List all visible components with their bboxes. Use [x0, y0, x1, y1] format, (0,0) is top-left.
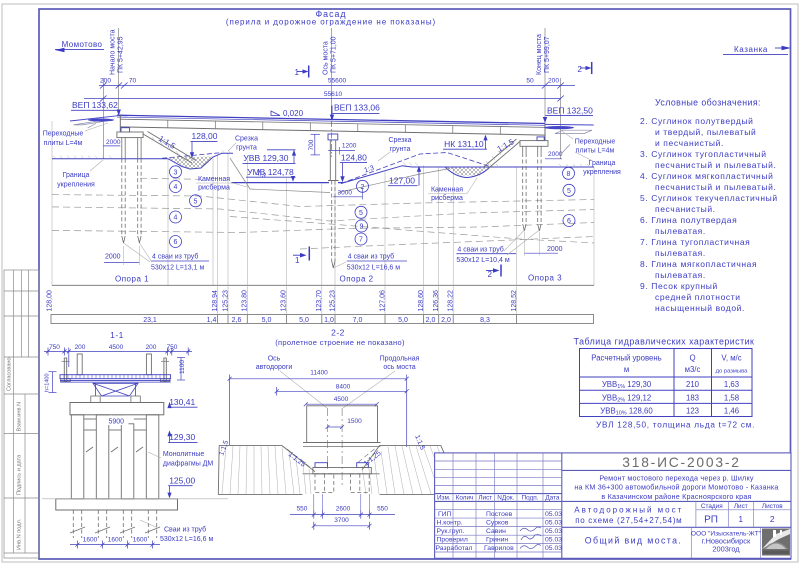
svg-text:Срезка: Срезка — [235, 136, 258, 143]
svg-text:РП: РП — [704, 514, 718, 525]
svg-text:ГИП: ГИП — [438, 511, 452, 518]
svg-text:Ремонт мостового перехода чере: Ремонт мостового перехода через р. Шилку — [599, 473, 754, 482]
svg-text:по схеме (27,54+27,54)м: по схеме (27,54+27,54)м — [575, 516, 682, 525]
svg-text:200: 200 — [548, 78, 559, 85]
svg-text:пылеватая.: пылеватая. — [655, 226, 706, 236]
svg-text:550: 550 — [297, 505, 308, 512]
svg-text:6: 6 — [174, 239, 178, 246]
svg-text:грунта: грунта — [236, 145, 257, 152]
svg-text:Подпись и дата: Подпись и дата — [17, 454, 23, 495]
svg-text:Лист: Лист — [734, 503, 748, 510]
svg-text:2: 2 — [578, 65, 583, 74]
svg-text:средней плотности: средней плотности — [655, 292, 741, 302]
svg-text:124,80: 124,80 — [341, 152, 367, 162]
svg-text:Продольная: Продольная — [380, 356, 420, 363]
svg-text:123,70: 123,70 — [316, 290, 323, 312]
svg-text:1,4: 1,4 — [207, 317, 217, 324]
svg-text:2000: 2000 — [547, 246, 563, 253]
svg-text:1,58: 1,58 — [724, 393, 739, 402]
svg-text:5: 5 — [194, 198, 198, 205]
svg-text:8400: 8400 — [336, 383, 351, 390]
svg-text:NДок.: NДок. — [497, 494, 514, 501]
svg-text:Автодорожный мост: Автодорожный мост — [574, 505, 683, 514]
svg-text:м3/с: м3/с — [685, 365, 701, 374]
svg-text:Листов: Листов — [762, 503, 783, 510]
svg-text:3: 3 — [174, 169, 178, 176]
svg-text:1,63: 1,63 — [724, 380, 739, 389]
svg-text:V, м/с: V, м/с — [721, 354, 741, 363]
svg-text:125,23: 125,23 — [329, 290, 336, 312]
svg-text:2: 2 — [488, 270, 493, 279]
svg-text:4: 4 — [174, 184, 178, 191]
svg-text:и песчанистый.: и песчанистый. — [655, 138, 724, 148]
svg-text:200: 200 — [100, 78, 111, 85]
svg-text:рисберма: рисберма — [431, 194, 463, 202]
svg-text:2000: 2000 — [105, 254, 121, 261]
svg-text:Проверил: Проверил — [437, 537, 468, 544]
svg-text:129,30: 129,30 — [169, 432, 195, 442]
svg-text:1-1: 1-1 — [110, 330, 124, 340]
svg-text:(пролетное строение не показан: (пролетное строение не показано) — [275, 338, 405, 347]
svg-text:Ось моста: Ось моста — [323, 41, 330, 75]
svg-text:Постоев: Постоев — [486, 511, 513, 518]
svg-text:плиты L=4м: плиты L=4м — [44, 140, 83, 147]
svg-text:125,00: 125,00 — [169, 475, 195, 485]
svg-text:Каменная: Каменная — [198, 176, 230, 183]
svg-text:3000: 3000 — [338, 189, 353, 196]
svg-text:УМВ 124,78: УМВ 124,78 — [247, 167, 294, 177]
svg-text:2. Суглинок полутвердый: 2. Суглинок полутвердый — [640, 116, 754, 126]
svg-text:7,0: 7,0 — [353, 317, 363, 324]
svg-text:УВЛ 128,50, толщина льда t=72: УВЛ 128,50, толщина льда t=72 см. — [596, 421, 755, 430]
svg-text:ПК 5+71,00: ПК 5+71,00 — [331, 36, 338, 73]
svg-text:2,0: 2,0 — [441, 317, 451, 324]
svg-text:Опора 3: Опора 3 — [528, 274, 562, 283]
svg-text:4 сваи из труб: 4 сваи из труб — [152, 252, 198, 260]
svg-text:плиты L=4м: плиты L=4м — [576, 148, 615, 155]
svg-text:рисберма: рисберма — [198, 184, 230, 192]
svg-text:1600: 1600 — [133, 537, 148, 544]
svg-text:1,46: 1,46 — [724, 407, 739, 416]
svg-text:6: 6 — [567, 218, 571, 225]
svg-text:200: 200 — [75, 344, 86, 351]
svg-text:128,22: 128,22 — [448, 290, 455, 312]
svg-text:7: 7 — [359, 237, 363, 244]
svg-text:1100: 1100 — [179, 360, 186, 374]
svg-text:4 сваи из труб: 4 сваи из труб — [457, 245, 503, 253]
svg-text:128,94: 128,94 — [212, 290, 219, 312]
svg-text:1600: 1600 — [108, 537, 123, 544]
svg-text:5: 5 — [567, 188, 571, 195]
svg-text:2: 2 — [770, 514, 775, 524]
svg-text:5. Суглинок текучепластичный: 5. Суглинок текучепластичный — [640, 193, 778, 203]
svg-text:2003год: 2003год — [712, 545, 740, 554]
svg-text:123,60: 123,60 — [281, 290, 288, 312]
svg-text:диафрагмы ДМ: диафрагмы ДМ — [163, 460, 214, 467]
svg-text:750: 750 — [49, 344, 60, 351]
svg-text:530х12 L=16,6 м: 530х12 L=16,6 м — [160, 536, 213, 543]
svg-text:на КМ 36+300 автомобильной дор: на КМ 36+300 автомобильной дороги Момото… — [574, 483, 778, 492]
svg-text:2-2: 2-2 — [331, 328, 345, 338]
svg-text:123: 123 — [686, 407, 699, 416]
svg-text:Ось: Ось — [268, 356, 281, 363]
svg-text:ВЕП 133,06: ВЕП 133,06 — [334, 103, 380, 113]
svg-text:125,23: 125,23 — [222, 290, 229, 312]
svg-text:1: 1 — [295, 68, 300, 77]
svg-text:Подп.: Подп. — [522, 494, 539, 501]
svg-text:9. Песок крупный: 9. Песок крупный — [640, 281, 718, 291]
svg-text:Переходные: Переходные — [43, 131, 84, 138]
svg-text:700: 700 — [308, 139, 315, 150]
svg-text:Казанка: Казанка — [734, 45, 768, 54]
svg-text:7. Глина тугопластичная: 7. Глина тугопластичная — [640, 237, 750, 247]
svg-text:8,3: 8,3 — [480, 317, 490, 324]
svg-text:50: 50 — [526, 78, 534, 85]
svg-text:Начало моста: Начало моста — [110, 29, 117, 75]
svg-text:3700: 3700 — [334, 517, 349, 524]
svg-text:(перила и дорожное ограждение: (перила и дорожное ограждение не показан… — [226, 18, 436, 27]
svg-text:55600: 55600 — [328, 78, 347, 85]
svg-text:Таблица гидравлических характе: Таблица гидравлических характеристик — [574, 336, 755, 346]
svg-text:в Казачинском районе Красноярс: в Казачинском районе Красноярского края — [601, 492, 751, 501]
svg-text:126,36: 126,36 — [433, 290, 440, 312]
svg-text:пылеватая.: пылеватая. — [655, 248, 706, 258]
svg-text:1600: 1600 — [83, 537, 98, 544]
svg-text:Граница: Граница — [589, 160, 616, 167]
svg-text:4 сваи из труб: 4 сваи из труб — [348, 252, 394, 260]
svg-text:128,00: 128,00 — [47, 290, 54, 312]
svg-text:05.03: 05.03 — [545, 545, 562, 552]
svg-text:750: 750 — [167, 344, 178, 351]
svg-text:2,6: 2,6 — [232, 317, 242, 324]
svg-text:Колич: Колич — [456, 494, 474, 501]
svg-text:насыщенный водой.: насыщенный водой. — [655, 303, 745, 313]
svg-text:Сваи из труб: Сваи из труб — [164, 525, 206, 533]
svg-text:1: 1 — [738, 514, 743, 524]
svg-text:550: 550 — [377, 505, 388, 512]
svg-text:2000: 2000 — [548, 151, 563, 158]
svg-text:песчанистый и пылеватый.: песчанистый и пылеватый. — [655, 160, 776, 170]
svg-text:h=1400: h=1400 — [45, 373, 51, 392]
svg-text:УВВ 129,30: УВВ 129,30 — [243, 153, 288, 163]
svg-text:Граница: Граница — [63, 172, 90, 179]
svg-text:4500: 4500 — [109, 344, 124, 351]
svg-text:Каменная: Каменная — [431, 187, 463, 194]
svg-text:Опора 2: Опора 2 — [340, 275, 374, 284]
svg-text:Взам.инв.N: Взам.инв.N — [17, 402, 23, 432]
svg-text:грунта: грунта — [390, 146, 411, 153]
svg-text:и твердый, пылеватый: и твердый, пылеватый — [655, 127, 756, 137]
svg-text:183: 183 — [686, 393, 699, 402]
svg-text:Согласовано: Согласовано — [7, 357, 13, 391]
svg-text:укрепления: укрепления — [57, 182, 95, 189]
svg-text:70: 70 — [129, 78, 137, 85]
svg-text:Гринин: Гринин — [486, 537, 508, 544]
svg-text:ВЕП 132,50: ВЕП 132,50 — [547, 106, 593, 116]
svg-text:УВВ10% 128,60: УВВ10% 128,60 — [600, 407, 653, 417]
svg-text:5: 5 — [359, 210, 363, 217]
svg-text:5,0: 5,0 — [299, 317, 309, 324]
svg-text:Конец моста: Конец моста — [536, 34, 543, 75]
svg-text:ВЕП 133,62: ВЕП 133,62 — [72, 100, 118, 110]
svg-text:5900: 5900 — [109, 418, 125, 425]
svg-text:8: 8 — [567, 171, 571, 178]
svg-text:123,80: 123,80 — [242, 290, 249, 312]
svg-text:ось моста: ось моста — [383, 364, 415, 371]
svg-text:1200: 1200 — [342, 142, 357, 149]
svg-text:128,00: 128,00 — [192, 131, 218, 141]
svg-text:530х12 L=16,6 м: 530х12 L=16,6 м — [347, 265, 400, 272]
svg-text:5,0: 5,0 — [398, 317, 408, 324]
svg-text:4: 4 — [174, 215, 178, 222]
svg-text:ПК 5+99,07: ПК 5+99,07 — [544, 36, 551, 73]
svg-text:3. Суглинок тугопластичный: 3. Суглинок тугопластичный — [640, 149, 767, 159]
svg-text:6. Глина полутвердая: 6. Глина полутвердая — [640, 215, 737, 225]
svg-text:песчанистый и пылеватый.: песчанистый и пылеватый. — [655, 182, 776, 192]
svg-text:УВВ2% 129,12: УВВ2% 129,12 — [602, 393, 651, 403]
svg-text:автодороги: автодороги — [256, 364, 293, 371]
svg-text:Монолитные: Монолитные — [163, 451, 205, 458]
svg-text:4500: 4500 — [334, 396, 349, 403]
svg-text:пылеватая.: пылеватая. — [655, 270, 706, 280]
svg-text:НК 131,10: НК 131,10 — [444, 139, 484, 149]
svg-text:05.03: 05.03 — [545, 528, 562, 535]
svg-text:Общий вид моста.: Общий вид моста. — [585, 536, 683, 546]
svg-text:Момотово: Момотово — [62, 40, 103, 49]
svg-text:Сурков: Сурков — [486, 520, 509, 527]
svg-text:2,0: 2,0 — [426, 317, 436, 324]
svg-text:Гаврилов: Гаврилов — [484, 545, 514, 552]
svg-text:Разработал: Разработал — [436, 544, 473, 552]
svg-text:127,06: 127,06 — [379, 290, 386, 312]
svg-text:Рук.груп.: Рук.груп. — [437, 528, 465, 535]
svg-text:200: 200 — [146, 344, 157, 351]
svg-text:05.03: 05.03 — [545, 511, 562, 518]
svg-text:до размыва: до размыва — [716, 369, 748, 375]
svg-text:05.03: 05.03 — [545, 520, 562, 527]
svg-text:210: 210 — [686, 380, 700, 389]
svg-text:05.03: 05.03 — [545, 537, 562, 544]
svg-text:128,60: 128,60 — [418, 290, 425, 312]
svg-text:1: 1 — [295, 256, 300, 265]
svg-text:127,00: 127,00 — [389, 175, 415, 185]
svg-text:Q: Q — [689, 354, 695, 363]
svg-text:2600: 2600 — [336, 505, 351, 512]
svg-text:Стадия: Стадия — [701, 503, 723, 510]
svg-text:530х12 L=13,1 м: 530х12 L=13,1 м — [151, 265, 204, 272]
svg-text:Переходные: Переходные — [575, 139, 616, 146]
svg-text:Условные обозначения:: Условные обозначения: — [655, 97, 761, 107]
svg-text:укрепления: укрепления — [583, 169, 621, 176]
svg-text:Н.контр.: Н.контр. — [437, 520, 463, 527]
svg-text:5,0: 5,0 — [262, 317, 272, 324]
svg-text:Изм.: Изм. — [437, 494, 451, 501]
svg-text:11400: 11400 — [310, 369, 328, 376]
svg-text:Срезка: Срезка — [388, 137, 411, 144]
svg-text:песчанистый.: песчанистый. — [655, 204, 716, 214]
svg-text:Дата: Дата — [545, 494, 560, 501]
svg-text:530х12 L=10,4 м: 530х12 L=10,4 м — [456, 257, 509, 264]
svg-text:ПК 5+42,95: ПК 5+42,95 — [118, 36, 125, 73]
svg-text:Инв.N подл.: Инв.N подл. — [17, 518, 23, 550]
svg-text:УВВ1% 129,30: УВВ1% 129,30 — [602, 380, 652, 390]
svg-text:318-ИС-2003-2: 318-ИС-2003-2 — [622, 455, 740, 470]
svg-text:Савин: Савин — [486, 528, 506, 535]
svg-text:Расчетный уровень: Расчетный уровень — [591, 354, 661, 363]
svg-text:Опора 1: Опора 1 — [115, 275, 149, 284]
svg-text:130,41: 130,41 — [169, 397, 195, 407]
svg-text:128,52: 128,52 — [511, 290, 518, 312]
svg-text:4. Суглинок мягкопластичный: 4. Суглинок мягкопластичный — [640, 171, 773, 181]
svg-text:0,020: 0,020 — [283, 109, 304, 118]
svg-text:9: 9 — [360, 224, 364, 231]
svg-text:м: м — [624, 365, 629, 374]
svg-text:8. Глина мягкопластичная: 8. Глина мягкопластичная — [640, 259, 757, 269]
svg-text:Лист: Лист — [478, 494, 492, 501]
svg-text:23,1: 23,1 — [143, 317, 157, 324]
svg-text:1,0: 1,0 — [324, 317, 334, 324]
svg-text:1500: 1500 — [347, 418, 362, 425]
svg-text:2000: 2000 — [106, 139, 121, 146]
svg-text:55610: 55610 — [324, 91, 343, 98]
